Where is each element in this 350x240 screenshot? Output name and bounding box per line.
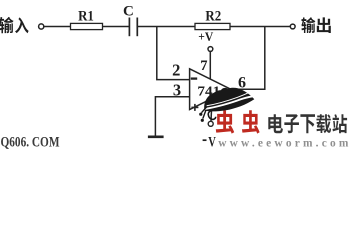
wire R1 to C <box>103 26 130 28</box>
svg-text:Q606. COM: Q606. COM <box>1 134 60 150</box>
pin 6 wire and output node vertical <box>231 27 265 90</box>
capacitor C left plate <box>128 18 130 37</box>
resistor R1 <box>71 23 103 29</box>
bug white band upper <box>207 92 250 105</box>
svg-text:3: 3 <box>173 80 181 99</box>
capacitor C right plate <box>136 18 138 37</box>
bug logo silhouette <box>204 88 254 112</box>
output terminal circle <box>290 24 295 29</box>
bug curled antenna <box>208 110 215 119</box>
pin 4 wire <box>211 99 212 121</box>
wire C to R2 <box>137 26 195 28</box>
watermark red 虫虫 <box>216 110 234 133</box>
-V terminal circle <box>208 121 213 126</box>
bug leg 2 <box>203 110 206 119</box>
bug leg 1 <box>202 107 207 113</box>
watermark 电子下载站 <box>268 114 283 133</box>
svg-text:2: 2 <box>172 60 180 79</box>
pin 7 wire <box>209 52 211 80</box>
svg-text:R1: R1 <box>78 9 94 25</box>
resistor R2 <box>195 23 230 29</box>
wire input to R1 <box>44 26 71 28</box>
svg-text:C: C <box>123 4 134 20</box>
+V terminal circle <box>208 47 213 52</box>
wire R2 to output <box>230 26 290 28</box>
label -V minus <box>203 139 207 141</box>
bug white band lower <box>205 96 253 109</box>
label input 输入 <box>0 17 14 33</box>
svg-text:+V: +V <box>198 30 213 44</box>
op-amp U1 triangle 741 <box>190 69 231 110</box>
input terminal circle <box>39 24 44 29</box>
label output 输出 <box>301 17 315 33</box>
svg-text:7: 7 <box>200 58 207 74</box>
svg-text:V: V <box>208 135 216 150</box>
minus sign pin 2 <box>191 77 197 79</box>
svg-text:www.eeworm.com: www.eeworm.com <box>218 137 350 149</box>
wire pin 3 to ground stub <box>155 97 189 137</box>
ground bar <box>148 136 164 139</box>
feedback wire from node to pin 2 <box>157 27 190 80</box>
plus sign pin 3 <box>191 104 198 111</box>
svg-text:R2: R2 <box>205 8 221 24</box>
